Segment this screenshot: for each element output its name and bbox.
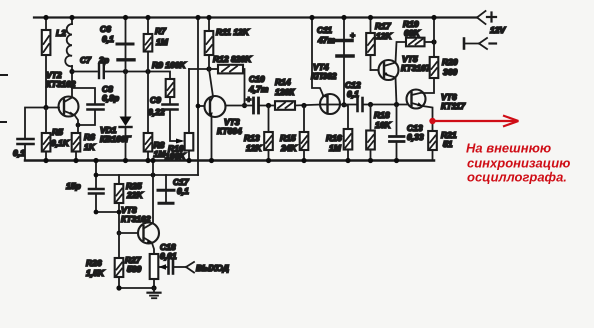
wire C7 to R9 top — [106, 72, 171, 80]
transistor VT8 KT3102 — [119, 232, 138, 234]
wire R14 to VT4 — [295, 105, 320, 106]
wire VT2 base rail — [25, 108, 59, 138]
wire VT8 collector column — [152, 161, 154, 224]
svg-text:15p: 15p — [66, 181, 81, 191]
transistor VT4 KP302 — [320, 94, 340, 114]
wire emitter ground rail — [119, 287, 154, 289]
wire VT2 collector — [71, 72, 73, 98]
node R8 bottom — [145, 158, 150, 163]
svg-text:R15: R15 — [280, 133, 296, 143]
svg-text:47m: 47m — [317, 35, 335, 45]
capacitor C13 0,33 — [396, 105, 398, 135]
transistor VT5 KT3107 — [379, 60, 399, 80]
wire C15 bottom to R25 — [96, 195, 119, 212]
node VT5 emitter / C13 — [394, 102, 399, 107]
wire bottom common bus — [25, 159, 434, 162]
resistor R5 0,1K — [45, 108, 47, 134]
node R10 bottom — [186, 158, 191, 163]
resistor R19 68K — [406, 38, 425, 47]
svg-text:R18: R18 — [374, 110, 390, 120]
capacitor C7 2p — [99, 64, 104, 78]
resistor R11 12K — [208, 18, 210, 32]
transistor VT6 KT117 — [407, 90, 426, 109]
capacitor C14 0,1 (left edge) — [18, 139, 34, 144]
wire VT4 to C12 — [340, 104, 356, 106]
resistor R7 1M — [147, 18, 149, 35]
node VD1/C6 top — [123, 69, 128, 74]
capacitor C18 0,01 — [169, 261, 174, 274]
wire VT2 emitter to R6 — [75, 115, 79, 133]
wire top supply bus — [34, 16, 477, 18]
node collector/C7 junction — [69, 69, 74, 74]
svg-text:КВ109Г: КВ109Г — [100, 134, 132, 144]
resistor R4 (top left, unlabeled) — [45, 18, 47, 31]
svg-text:0,1K: 0,1K — [51, 138, 70, 148]
svg-text:0,1: 0,1 — [13, 148, 25, 158]
svg-text:R13: R13 — [244, 133, 260, 143]
svg-text:L2: L2 — [56, 28, 66, 38]
svg-text:51: 51 — [443, 139, 453, 149]
node emitter/C8 — [76, 123, 81, 128]
svg-text:0,1: 0,1 — [177, 186, 189, 196]
node VT8 base — [117, 231, 122, 236]
svg-text:R16: R16 — [326, 133, 342, 143]
svg-text:R11 12K: R11 12K — [216, 27, 250, 37]
resistor R21 51 — [428, 131, 437, 150]
svg-text:На внешнюю: На внешнюю — [466, 141, 551, 156]
wire left cap to bus — [24, 146, 26, 161]
svg-text:12K: 12K — [376, 31, 392, 41]
wire C12 to VT6 — [364, 104, 407, 106]
svg-text:12K: 12K — [246, 143, 262, 153]
wire R19 to R20 column — [425, 41, 435, 43]
svg-text:C10: C10 — [249, 74, 265, 84]
node base/R5 junction — [43, 105, 48, 110]
resistor R16 1M — [344, 105, 348, 129]
ground — [153, 288, 155, 292]
svg-text:22K: 22K — [126, 190, 143, 200]
svg-text:КП302: КП302 — [311, 71, 337, 81]
wire VT5 collector to R19 — [396, 42, 407, 63]
resistor R8 1M — [147, 72, 149, 134]
wire C9 to R10 wiper — [170, 111, 181, 141]
svg-text:синхронизацию: синхронизацию — [467, 156, 570, 171]
transistor VT2 KT3102 — [59, 97, 79, 117]
wire R27 wiper to C18 — [159, 266, 167, 268]
resistor R15 24K — [303, 106, 305, 133]
wire R4 to base rail — [45, 55, 47, 108]
node x96/y175 — [94, 173, 99, 178]
wire bias column — [197, 18, 199, 176]
wire scan artifact dash upper left — [0, 74, 7, 76]
node R13 top — [266, 103, 271, 108]
svg-text:6,8p: 6,8p — [102, 93, 119, 103]
node R5 bottom — [43, 158, 48, 163]
node VT3 emitter bottom — [209, 158, 214, 163]
svg-text:осциллографа.: осциллографа. — [467, 170, 567, 185]
svg-text:C7: C7 — [80, 55, 92, 65]
svg-text:КТ3102: КТ3102 — [121, 214, 151, 224]
svg-text:1K: 1K — [84, 142, 96, 152]
capacitor C9 0,22 — [169, 97, 171, 103]
svg-text:2p: 2p — [98, 55, 109, 65]
svg-text:100K: 100K — [165, 151, 186, 161]
resistor R26 1,5K — [118, 233, 120, 258]
wire signal VT3 to C10 — [226, 105, 253, 107]
wire R17 to VT5 base — [371, 69, 379, 71]
transistor VT3 KT604 — [198, 105, 205, 107]
wire VT8 emitter to R27 — [152, 243, 154, 255]
svg-text:120К: 120К — [275, 87, 295, 97]
svg-text:R9 100K: R9 100K — [152, 60, 186, 70]
svg-text:0,1: 0,1 — [102, 34, 114, 44]
capacitor C11 47m — [343, 18, 345, 39]
diode VD1 KV109 varicap — [125, 72, 127, 117]
node R15 top — [301, 103, 306, 108]
node VT3 base — [196, 104, 201, 109]
resistor R10 100K (trimmer) — [188, 69, 190, 133]
resistor R27 580 (trimmer) — [150, 254, 159, 279]
svg-text:КТ604: КТ604 — [217, 126, 242, 136]
node VD1 bottom — [123, 158, 128, 163]
wire sub-circuit top rail y175 — [96, 174, 198, 176]
svg-text:R26: R26 — [86, 258, 102, 268]
svg-text:+: + — [246, 94, 251, 104]
wire VT4 drain to bus — [312, 18, 323, 96]
capacitor C12 0,1 — [358, 98, 363, 111]
svg-text:68K: 68K — [404, 28, 420, 38]
svg-text:R12 820K: R12 820K — [213, 54, 252, 64]
wire C10 to R14 — [260, 105, 275, 107]
node C11/R16 — [341, 102, 346, 107]
resistor R6 1K — [72, 133, 81, 152]
svg-text:C6: C6 — [100, 24, 111, 34]
svg-text:0,1: 0,1 — [347, 89, 359, 99]
resistor R20 360 — [430, 57, 439, 78]
svg-text:R5: R5 — [52, 127, 63, 137]
svg-text:0,01: 0,01 — [160, 251, 177, 261]
svg-text:580: 580 — [127, 264, 141, 274]
capacitor C8 6,8p — [88, 105, 104, 110]
node R6 bottom — [73, 158, 78, 163]
connector VYHOD — [186, 262, 194, 267]
svg-text:КТ3107: КТ3107 — [401, 63, 432, 73]
connector +12V — [477, 11, 486, 18]
capacitor C6 0,1 — [125, 18, 127, 43]
svg-text:360: 360 — [443, 67, 457, 77]
wire supply column x434 — [433, 18, 435, 58]
node R11 bottom junction — [206, 66, 211, 71]
svg-text:R7: R7 — [155, 26, 167, 36]
wire oscillator node row — [72, 71, 97, 73]
node R12/C10 — [242, 103, 247, 108]
svg-text:C9: C9 — [150, 95, 161, 105]
wire R12 right to signal — [243, 69, 245, 106]
wire VT5 emitter down — [396, 78, 397, 105]
svg-text:16K: 16K — [375, 120, 391, 130]
svg-text:R6: R6 — [84, 132, 95, 142]
svg-text:0,33: 0,33 — [407, 132, 424, 142]
resistor R9 100K — [166, 79, 175, 97]
svg-text:4,7m: 4,7m — [248, 84, 269, 94]
svg-text:ВЫХОД: ВЫХОД — [196, 263, 229, 273]
wire VT3 collector to R11 junction — [209, 69, 213, 97]
capacitor C10 4,7m — [254, 98, 259, 113]
resistor R17 12K — [370, 18, 372, 34]
svg-text:0,22: 0,22 — [148, 107, 165, 117]
node R7/R8 junction — [145, 69, 150, 74]
inductor L2 — [71, 18, 73, 25]
svg-text:1M: 1M — [156, 37, 169, 47]
node R19/R20 — [431, 39, 436, 44]
svg-text:R14: R14 — [275, 77, 291, 87]
svg-text:1,5K: 1,5K — [86, 268, 105, 278]
node R25 bottom / C15 — [117, 210, 122, 215]
wire C18 to output connector — [175, 266, 187, 268]
svg-text:КТ117: КТ117 — [441, 101, 466, 111]
svg-text:R20: R20 — [442, 57, 458, 67]
resistor R13 12K — [268, 106, 270, 133]
node output (red) — [429, 118, 435, 124]
wire VT6 emitter to output node — [423, 106, 433, 131]
capacitor C15 15p — [89, 189, 104, 194]
svg-text:24K: 24K — [280, 143, 297, 153]
svg-text:12V: 12V — [490, 25, 506, 35]
node R18 top — [368, 102, 373, 107]
svg-text:C11: C11 — [317, 25, 332, 35]
connector -12V (minus) — [463, 39, 466, 49]
resistor R12 820K — [209, 68, 218, 70]
svg-text:КТ3102: КТ3102 — [46, 79, 76, 89]
wire C8 tap from collector — [72, 88, 95, 103]
wire VT3 emitter to bus — [211, 117, 213, 161]
wire C8 to emitter — [78, 111, 95, 125]
node VT8 collector / y175 — [151, 173, 156, 178]
wire red sync arrow — [435, 116, 519, 127]
capacitor C17 0,1 — [165, 175, 167, 189]
wire tee at y69 — [189, 68, 209, 70]
wire R20 to VT6 collector — [423, 78, 435, 93]
node L2 top — [43, 15, 48, 20]
svg-text:+: + — [350, 30, 355, 40]
svg-text:R17: R17 — [375, 21, 392, 31]
resistor R14 120K — [275, 101, 295, 110]
wire sub-circuit feed column x96 — [95, 161, 97, 189]
svg-text:1M: 1M — [329, 143, 342, 153]
resistor R18 16K — [370, 105, 372, 131]
wire scan artifact dash lower left — [0, 121, 6, 123]
resistor R25 22K — [118, 175, 120, 184]
